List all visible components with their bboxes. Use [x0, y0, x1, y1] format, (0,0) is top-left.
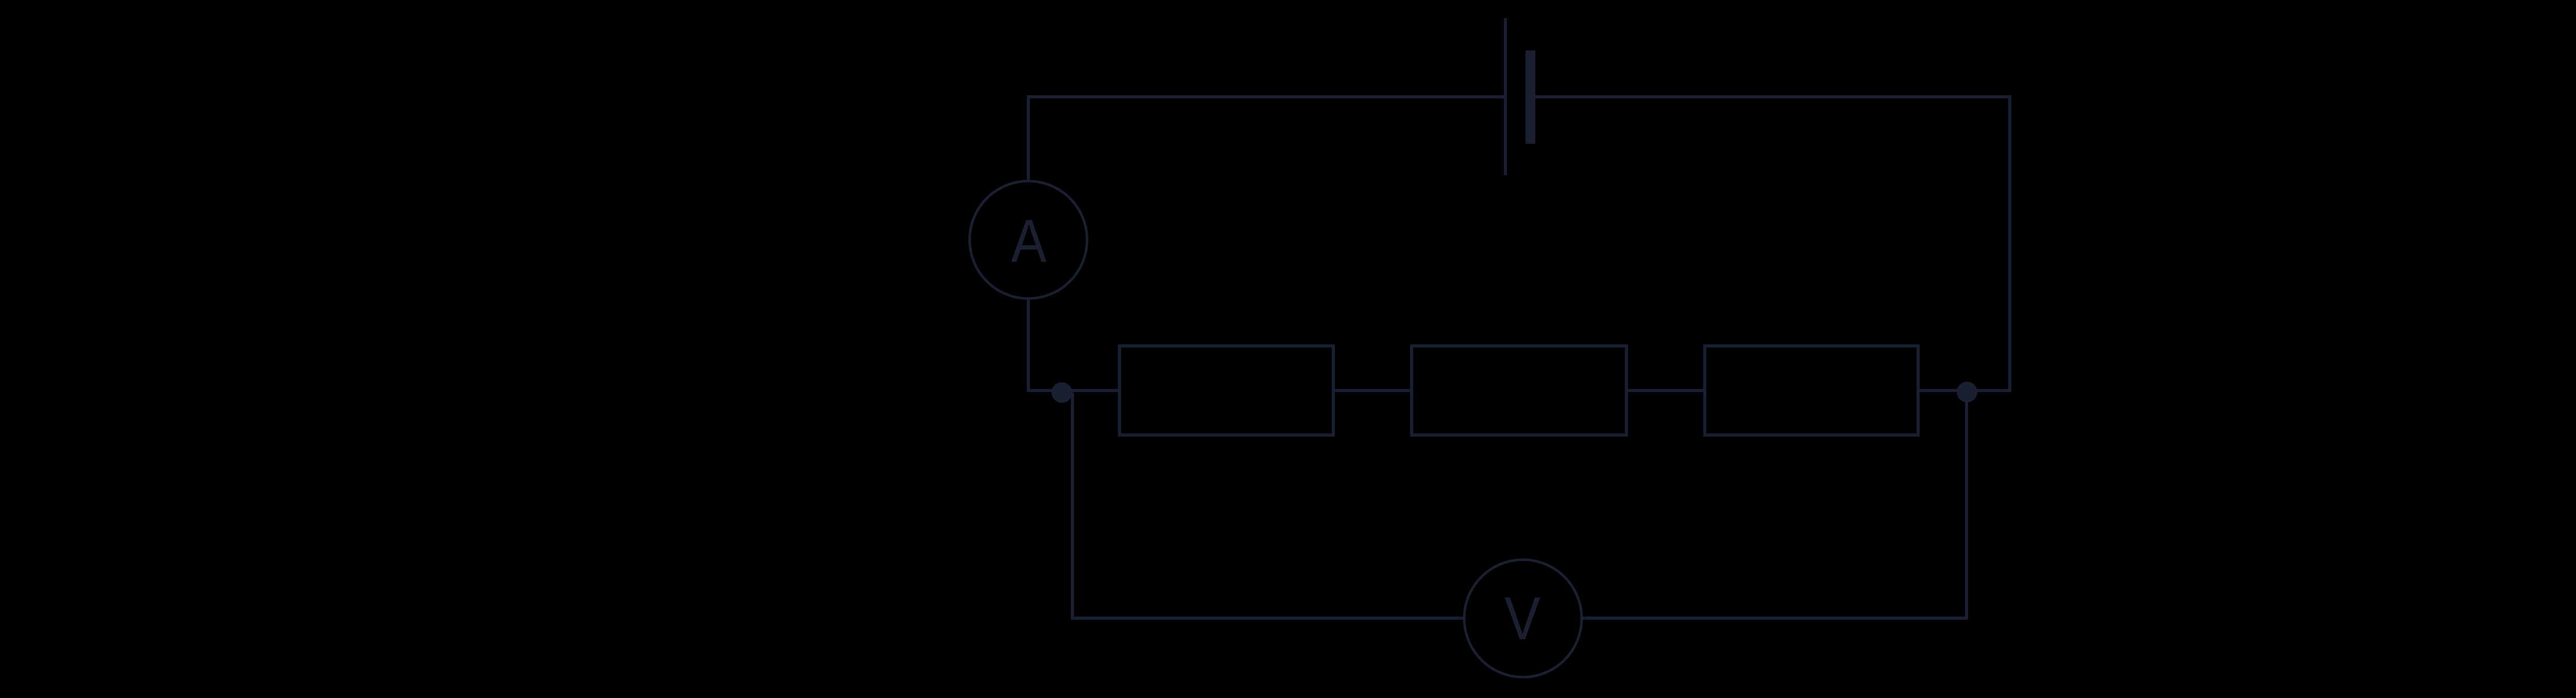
node: left junction dot	[1052, 382, 1072, 403]
ammeter U1 circle	[970, 181, 1087, 299]
wire: ammeter bottom to left junction and resistor R1	[1028, 298, 1121, 390]
node: right junction dot	[1957, 382, 1977, 402]
resistor R2	[1412, 346, 1626, 435]
resistor R1	[1120, 346, 1333, 435]
wire: top-left segment from ammeter to battery	[1028, 97, 1505, 181]
wire: R1 to R2	[1333, 389, 1412, 392]
svg-text:A: A	[1011, 207, 1047, 275]
wire: R2 to R3	[1626, 389, 1705, 392]
svg-text:V: V	[1504, 585, 1540, 653]
resistor R3	[1705, 346, 1918, 435]
wire: top-right segment from battery to right vertical drop	[1530, 97, 2010, 390]
wire: left junction down to voltmeter	[1073, 393, 1466, 618]
battery V1 short thick plate (negative)	[1526, 50, 1535, 144]
wire: voltmeter to right junction	[1581, 392, 1967, 618]
wire: R3 to right junction	[1918, 389, 1967, 392]
battery V1 long plate (positive)	[1504, 18, 1507, 175]
voltmeter U2 circle	[1464, 560, 1582, 677]
